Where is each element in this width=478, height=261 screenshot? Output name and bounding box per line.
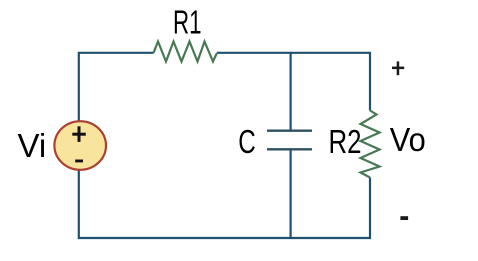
svg-text:Vo: Vo [390, 121, 426, 158]
svg-text:Vi: Vi [18, 127, 47, 164]
svg-text:C: C [238, 123, 256, 160]
svg-text:R2: R2 [329, 123, 362, 160]
svg-text:R1: R1 [173, 3, 202, 40]
